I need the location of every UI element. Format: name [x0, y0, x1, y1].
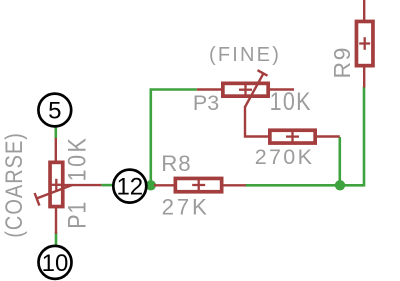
svg-text:(FINE): (FINE) — [209, 44, 281, 66]
svg-text:27K: 27K — [162, 195, 210, 220]
wire — [245, 184, 364, 187]
potentiometer P1 — [35, 138, 102, 234]
svg-text:10: 10 — [42, 250, 69, 277]
wire — [55, 233, 58, 247]
junction node12 — [146, 180, 156, 190]
svg-text:10K: 10K — [63, 136, 91, 182]
wire — [101, 184, 113, 187]
wire — [54, 127, 57, 139]
wire — [338, 137, 341, 185]
svg-text:270K: 270K — [255, 145, 314, 169]
svg-text:(COARSE): (COARSE) — [0, 132, 27, 238]
wire — [146, 184, 152, 187]
wire — [363, 87, 366, 187]
node 10 — [39, 246, 72, 279]
svg-text:P1: P1 — [63, 201, 91, 229]
resistor 270K — [270, 130, 340, 143]
node 12 — [113, 170, 146, 203]
svg-text:R8: R8 — [161, 151, 191, 176]
node 5 — [38, 94, 71, 127]
potentiometer P3 — [197, 70, 294, 136]
svg-text:R9: R9 — [329, 46, 355, 78]
resistor R8 — [154, 178, 246, 191]
wire — [151, 90, 197, 186]
svg-text:P3: P3 — [193, 91, 219, 115]
svg-text:5: 5 — [48, 98, 61, 125]
junction right — [335, 180, 345, 190]
resistor R9 — [356, 0, 373, 88]
svg-text:12: 12 — [116, 174, 143, 201]
svg-text:10K: 10K — [270, 88, 312, 116]
